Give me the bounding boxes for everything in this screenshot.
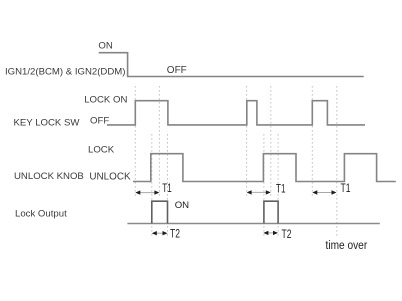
svg-text:ON: ON [98, 41, 112, 52]
svg-text:UNLOCK: UNLOCK [89, 171, 131, 182]
waveform IGN1/2(BCM) & IGN2(DDM) [99, 53, 364, 77]
dashed guide: T1 start, event 1 (key lock rise) [134, 86, 136, 196]
dashed guide: T2 start, event 1 (lock output rise) [151, 134, 153, 236]
svg-text:time over: time over [326, 240, 368, 252]
svg-text:T1: T1 [276, 181, 286, 195]
svg-text:LOCK ON: LOCK ON [84, 94, 127, 105]
arrow T2 event 2 [263, 231, 278, 235]
svg-text:ON: ON [175, 200, 189, 211]
svg-text:OFF: OFF [167, 65, 187, 76]
svg-text:Lock Output: Lock Output [15, 208, 67, 219]
svg-text:T1: T1 [341, 181, 351, 195]
svg-text:UNLOCK KNOB: UNLOCK KNOB [14, 171, 84, 182]
dashed guide: T2 end, event 2 (lock output fall) [277, 134, 279, 236]
arrow T1 event 2 [247, 190, 271, 194]
Lock Output pulse 2 [264, 201, 278, 223]
dashed guide: T1 start, event 2 (key lock rise) [246, 86, 248, 196]
dashed guide: T1 end, event 2 [270, 86, 272, 196]
svg-text:T1: T1 [162, 181, 172, 195]
svg-text:KEY LOCK SW: KEY LOCK SW [14, 118, 81, 129]
waveform KEY LOCK SW [107, 101, 365, 125]
dashed guide: T2 end, event 1 (lock output fall) [167, 134, 169, 236]
dashed guide: T1 end, event 1 [158, 86, 160, 196]
waveform Lock Output baseline [127, 223, 379, 225]
svg-text:IGN1/2(BCM) & IGN2(DDM): IGN1/2(BCM) & IGN2(DDM) [5, 66, 125, 77]
dashed guide: T1 start, event 3 (key lock rise) [311, 86, 313, 196]
dashed guide: T2 start, event 2 (lock output rise) [263, 134, 265, 236]
waveform UNLOCK KNOB [133, 154, 396, 182]
arrow T2 event 1 [152, 231, 168, 235]
svg-text:T2: T2 [282, 227, 292, 241]
svg-text:LOCK: LOCK [88, 144, 115, 155]
arrow T1 event 3 [312, 190, 336, 194]
svg-text:OFF: OFF [90, 115, 109, 126]
dashed guide: time over line (T1 end, event 3) [336, 86, 338, 238]
arrow T1 event 1 [135, 190, 159, 194]
Lock Output pulse 1 [152, 201, 168, 223]
svg-text:T2: T2 [170, 227, 180, 241]
